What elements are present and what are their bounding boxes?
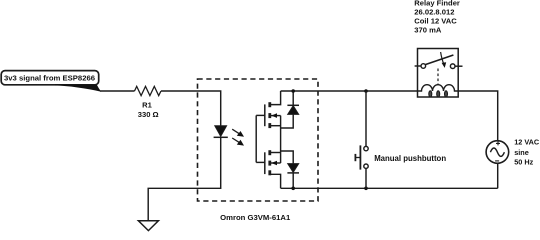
AC source V1 xyxy=(486,141,509,164)
node: bottom diode junction xyxy=(291,187,295,191)
node: pushbutton top junction xyxy=(364,89,368,93)
svg-text:12 VAC: 12 VAC xyxy=(514,138,540,147)
wire: LED cathode to ground xyxy=(148,137,221,221)
transistor Q1 (top photoMOS) xyxy=(256,91,280,128)
node: top diode junction xyxy=(291,89,295,93)
callout pointer xyxy=(55,84,101,91)
gate bus wire xyxy=(255,115,257,162)
LED light arrow 2 xyxy=(232,138,244,146)
svg-text:3v3 signal from ESP8266: 3v3 signal from ESP8266 xyxy=(4,74,95,83)
svg-text:370 mA: 370 mA xyxy=(414,26,442,35)
relay K1 (Finder) xyxy=(415,49,463,98)
svg-text:sine: sine xyxy=(514,148,529,157)
svg-text:26.02.8.012: 26.02.8.012 xyxy=(414,8,454,17)
svg-text:Omron G3VM-61A1: Omron G3VM-61A1 xyxy=(220,213,291,222)
wire: callout to resistor xyxy=(100,90,135,92)
wire: top rail xyxy=(281,90,422,92)
LED light arrow 1 xyxy=(232,129,244,137)
pushbutton S1 xyxy=(355,91,368,188)
diode D3 (bottom body diode) xyxy=(281,151,299,188)
callout box: 3v3 signal from ESP8266 xyxy=(1,71,99,85)
wire: coil to AC source xyxy=(458,91,498,141)
svg-text:50 Hz: 50 Hz xyxy=(514,158,533,167)
wire: resistor to LED anode xyxy=(161,91,221,126)
relay actuation arrow xyxy=(441,52,444,64)
relay contact circles xyxy=(421,64,426,69)
node: pushbutton bottom junction xyxy=(364,187,368,191)
diode D2 (top body diode) xyxy=(281,91,299,128)
wire: center source link xyxy=(280,116,282,163)
relay coil xyxy=(418,85,459,91)
svg-text:330 Ω: 330 Ω xyxy=(138,110,159,119)
wire: AC source to bottom rail xyxy=(497,163,499,188)
svg-text:Coil 12 VAC: Coil 12 VAC xyxy=(414,17,457,26)
relay switch stubs xyxy=(415,65,421,67)
wire: bottom rail xyxy=(281,187,498,189)
relay mechanical dashed link xyxy=(437,69,439,86)
ground xyxy=(138,221,158,231)
optocoupler dashed box U1 xyxy=(198,79,319,201)
resistor R1 xyxy=(135,86,162,95)
transistor Q2 (bottom photoMOS) xyxy=(256,150,280,188)
relay blade xyxy=(425,55,454,65)
svg-text:Manual pushbutton: Manual pushbutton xyxy=(374,154,446,163)
svg-text:Relay Finder: Relay Finder xyxy=(414,0,460,7)
svg-text:R1: R1 xyxy=(142,101,152,110)
LED D1 xyxy=(215,126,227,137)
